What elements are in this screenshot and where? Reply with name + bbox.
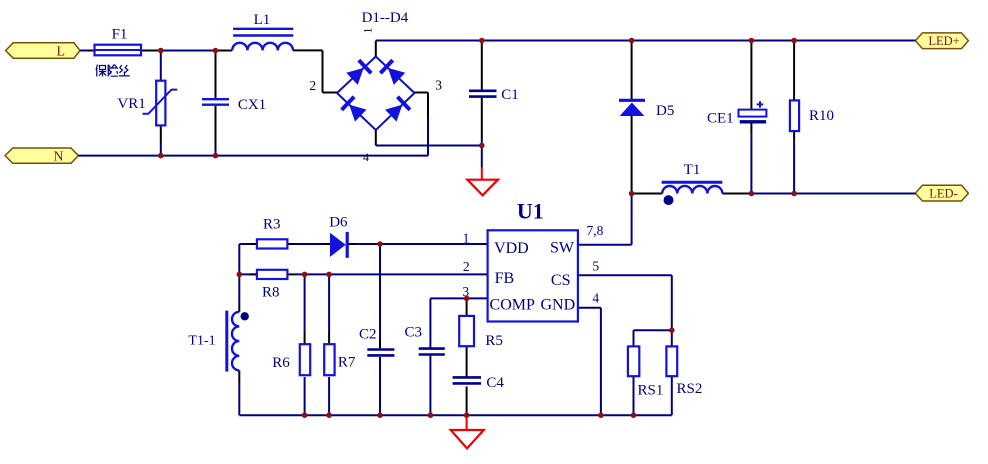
- svg-text:R3: R3: [263, 217, 281, 233]
- svg-text:F1: F1: [112, 26, 128, 42]
- svg-text:SW: SW: [550, 239, 575, 256]
- svg-text:T1: T1: [684, 162, 701, 178]
- svg-text:C1: C1: [501, 87, 519, 103]
- svg-text:D1--D4: D1--D4: [362, 10, 409, 26]
- svg-text:R7: R7: [338, 355, 356, 371]
- svg-text:1: 1: [361, 28, 375, 34]
- svg-text:3: 3: [462, 284, 469, 299]
- svg-text:R8: R8: [262, 285, 280, 301]
- svg-text:VDD: VDD: [494, 240, 529, 257]
- svg-text:2: 2: [463, 259, 470, 274]
- svg-text:R10: R10: [809, 108, 834, 124]
- svg-text:R6: R6: [272, 355, 290, 371]
- svg-text:L1: L1: [254, 12, 271, 28]
- svg-text:4: 4: [592, 290, 599, 305]
- svg-text:4: 4: [363, 150, 369, 164]
- svg-text:C4: C4: [486, 375, 504, 391]
- svg-text:7,8: 7,8: [586, 223, 603, 238]
- svg-text:T1-1: T1-1: [188, 333, 215, 348]
- svg-text:FB: FB: [495, 270, 515, 287]
- svg-text:RS1: RS1: [637, 383, 663, 399]
- svg-text:D5: D5: [656, 103, 674, 119]
- svg-text:1: 1: [463, 231, 470, 246]
- svg-text:GND: GND: [540, 297, 575, 314]
- svg-text:R5: R5: [485, 333, 503, 349]
- svg-text:COMP: COMP: [490, 296, 535, 313]
- svg-text:RS2: RS2: [676, 381, 702, 397]
- svg-text:U1: U1: [517, 199, 544, 224]
- svg-text:D6: D6: [329, 215, 348, 231]
- svg-text:N: N: [53, 150, 63, 165]
- svg-text:LED-: LED-: [929, 186, 957, 200]
- svg-text:C2: C2: [359, 327, 377, 343]
- svg-text:VR1: VR1: [117, 96, 145, 112]
- svg-text:LED+: LED+: [928, 34, 959, 48]
- svg-text:CS: CS: [551, 272, 571, 289]
- svg-text:3: 3: [435, 77, 442, 92]
- svg-text:2: 2: [309, 78, 316, 93]
- svg-text:CE1: CE1: [707, 111, 734, 127]
- svg-text:C3: C3: [405, 325, 423, 341]
- svg-text:CX1: CX1: [238, 97, 266, 113]
- svg-text:5: 5: [592, 258, 599, 273]
- svg-text:L: L: [56, 44, 65, 59]
